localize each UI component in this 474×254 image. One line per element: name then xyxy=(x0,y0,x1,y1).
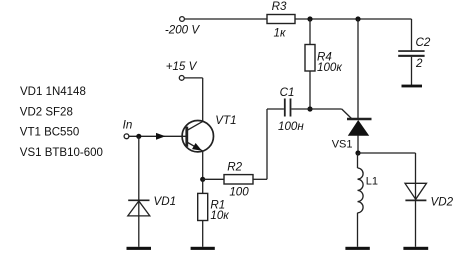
terminal -200V xyxy=(180,17,185,22)
wire C1 left xyxy=(267,108,284,110)
node VS1 cathode junction xyxy=(355,150,360,155)
arrow on base wire xyxy=(156,133,166,140)
wire rail to R4 xyxy=(309,19,311,45)
svg-text:R3: R3 xyxy=(272,0,287,13)
ground under VD2 xyxy=(403,247,428,250)
svg-text:100н: 100н xyxy=(278,120,304,133)
capacitor C1 xyxy=(284,99,292,117)
diode VD2 xyxy=(405,183,427,247)
transistor VT1 xyxy=(182,121,213,152)
wire C2 to ground xyxy=(411,57,413,85)
terminal +15V xyxy=(179,76,184,81)
node emitter junction xyxy=(200,177,205,182)
wire collector riser xyxy=(202,78,204,122)
resistor R1 xyxy=(198,193,208,220)
svg-text:10к: 10к xyxy=(210,209,229,222)
wire R3 to C2 corner xyxy=(295,18,412,20)
wire rail to VS1 xyxy=(357,19,359,119)
ground under VD1 xyxy=(127,247,152,250)
thyristor VS1 xyxy=(347,119,372,153)
inductor L1 xyxy=(358,153,364,247)
wire R2 riser xyxy=(266,109,268,179)
svg-text:C1: C1 xyxy=(280,86,295,99)
wire C1 to VS1 gate xyxy=(291,109,352,119)
svg-text:C2: C2 xyxy=(416,36,431,49)
svg-text:VD1 1N4148: VD1 1N4148 xyxy=(20,86,86,98)
capacitor C2 xyxy=(398,50,424,57)
ground under L1 xyxy=(345,247,369,250)
svg-text:+15 V: +15 V xyxy=(166,60,198,73)
wire emitter to R2 xyxy=(203,178,224,180)
wire R1 to ground xyxy=(202,221,204,247)
wire emitter xyxy=(202,151,204,179)
svg-text:1к: 1к xyxy=(274,27,286,40)
svg-text:R2: R2 xyxy=(227,161,242,174)
wire down to C2 xyxy=(411,19,413,50)
svg-text:2: 2 xyxy=(415,57,423,70)
ground under R1 xyxy=(191,247,215,250)
node VS1 top junction xyxy=(355,16,360,21)
wire R2 to riser xyxy=(253,178,267,180)
diode VD1 xyxy=(128,200,150,216)
node R4 top junction xyxy=(307,16,312,21)
svg-text:VD2: VD2 xyxy=(431,196,454,209)
terminal In xyxy=(124,134,129,139)
svg-text:VD1: VD1 xyxy=(154,195,177,208)
svg-text:VS1 BTB10-600: VS1 BTB10-600 xyxy=(20,147,103,159)
svg-text:VD2 SF28: VD2 SF28 xyxy=(20,106,73,118)
svg-text:VT1 BC550: VT1 BC550 xyxy=(20,127,79,139)
svg-text:100к: 100к xyxy=(317,61,342,74)
svg-text:-200 V: -200 V xyxy=(165,24,200,37)
resistor R2 xyxy=(224,175,253,184)
svg-text:VS1: VS1 xyxy=(332,138,353,150)
wire cathode to VD2 xyxy=(358,153,416,183)
wire In to VD1 xyxy=(138,136,140,247)
wire +15V to collector xyxy=(184,77,202,79)
resistor R3 xyxy=(267,15,295,24)
resistor R4 xyxy=(305,45,315,72)
svg-text:In: In xyxy=(123,118,133,131)
node In junction xyxy=(136,134,141,139)
wire terminal to R3 xyxy=(185,18,267,20)
ground under C2 xyxy=(402,85,423,88)
wire R4 to gate node xyxy=(309,71,311,109)
wire In to base xyxy=(129,135,187,137)
node gate junction xyxy=(307,106,312,111)
svg-text:VT1: VT1 xyxy=(215,114,236,127)
svg-text:100: 100 xyxy=(229,186,249,199)
wire to R1 xyxy=(202,179,204,193)
svg-text:L1: L1 xyxy=(366,175,378,187)
